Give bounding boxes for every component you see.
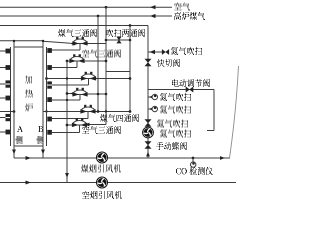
CO detector branch <box>192 157 195 162</box>
label 氮气吹扫 3 <box>160 106 191 113</box>
right burners B side <box>47 48 52 135</box>
air riser corner to valve5 with arrow <box>84 123 106 127</box>
N2 purge instrument 3 <box>148 106 158 111</box>
flow arrow into furnace B side <box>70 42 75 46</box>
manual butterfly valve 手动蝶阀 <box>145 141 152 145</box>
air three-way valve 空气三通阀 V5 <box>73 121 87 126</box>
left burners A side <box>6 49 11 135</box>
jumper air riser to purge drop <box>106 71 130 73</box>
label 煤烟引风机 <box>81 165 121 172</box>
stem valve3 to burner row3 <box>88 79 90 86</box>
label 手动蝶阀 <box>156 143 187 150</box>
label 氮气吹扫 2 <box>160 94 191 101</box>
furnace box 加热炉 <box>14 47 43 146</box>
label 高炉煤气 <box>174 13 205 20</box>
label 吹扫两通阀 <box>106 30 145 37</box>
three-way valve V3 <box>82 74 96 79</box>
junction node header3 / purge drop pipe <box>129 24 132 27</box>
gas three-way valve 煤气三通阀 V1 <box>73 39 87 44</box>
label 电动调节阀 <box>172 80 210 87</box>
left line to A side (y=111.5) <box>0 111 14 113</box>
purge valve bowtie <box>162 49 166 55</box>
junction node air header / air riser <box>105 6 108 9</box>
label A侧 <box>17 127 23 132</box>
wire valve3 left port to B pipe <box>47 78 82 80</box>
air-smoke flue line 空烟 <box>0 181 236 185</box>
three-way valve V6 (A-side gas) <box>73 90 87 95</box>
label 氮气吹扫 5 <box>160 130 191 137</box>
air three-way valve 空气三通阀 V2 <box>70 57 84 62</box>
wire valve2 right port to air riser <box>84 60 106 62</box>
up arrow on gas pipe bottom <box>146 152 150 157</box>
label 氮气吹扫 4 <box>157 120 188 127</box>
CO detector instrument <box>191 162 196 167</box>
air supply header line 空气 <box>0 5 172 9</box>
exhaust duct down arrow <box>65 173 69 178</box>
gas branch pipe (quick-cut line) <box>147 26 149 159</box>
blower on gas pipe <box>143 127 154 138</box>
gas four-way valve line <box>43 110 131 113</box>
stem valve5 to burner row6 <box>79 125 81 133</box>
label 煤气四通阀 <box>100 115 139 122</box>
purge drop pipe <box>129 26 131 112</box>
purge line <box>106 39 130 41</box>
wire valve6 left port to exhaust duct with arrow <box>66 92 75 96</box>
coal smoke fan 煤烟引风机 <box>97 152 108 163</box>
left burner stubs <box>0 51 6 132</box>
quick cut valve 快切阀 <box>145 59 152 63</box>
stem valve2 to burner row2 <box>76 61 78 68</box>
wire valve3 right port to purge drop <box>96 78 130 80</box>
exhaust duct vertical <box>66 61 68 183</box>
BF gas supply header line 高炉煤气 <box>0 14 172 18</box>
B-side flue downcomer with arrow <box>41 40 45 158</box>
stem valve4 to burner row5 <box>87 112 89 119</box>
label 快切阀 <box>157 60 180 67</box>
purge two-way valve 吹扫两通阀 <box>116 37 121 41</box>
label CO 检测仪 <box>176 168 213 175</box>
label B侧 <box>38 127 43 132</box>
label 空气三通阀 (lower) <box>82 127 121 134</box>
pipe from B-side wall to gas three-way valve <box>0 41 71 43</box>
B-side manifold pipe <box>46 47 48 146</box>
wire valve6 right port to risers <box>87 93 108 96</box>
air smoke fan 空烟引风机 <box>97 177 108 188</box>
N2 purge branch on gas pipe (top) <box>148 50 163 54</box>
label 空气三通阀 (upper) <box>82 50 121 57</box>
air riser pipe <box>105 7 107 124</box>
junction node gas header / gas riser <box>97 15 100 18</box>
stem valve6 to burner row4 <box>79 95 81 101</box>
wire valve1 to air riser <box>88 43 107 45</box>
label 空烟引风机 <box>82 192 122 199</box>
label 空气 <box>174 3 190 10</box>
label 加热炉 (vertical) <box>25 76 32 83</box>
label 氮气吹扫 1 <box>171 48 202 55</box>
third supply header line <box>0 25 148 27</box>
A-side manifold pipe <box>10 47 12 146</box>
N2 purge valve on pipe 4 <box>145 119 152 123</box>
A-side flue downcomer with arrow <box>12 40 16 158</box>
electric control valve line 电动调节阀 <box>148 90 214 131</box>
faint curved line right edge <box>230 66 239 158</box>
N2 purge instrument 2 <box>148 94 158 99</box>
wire valve2 left port to exhaust duct <box>67 60 70 62</box>
label 煤气三通阀 <box>58 30 97 37</box>
gas four-way valve 煤气四通阀 V4 <box>81 107 95 112</box>
gas riser pipe <box>97 16 99 112</box>
stem of valve1 down to burner row1 <box>79 44 81 51</box>
wire valve5 left port to exhaust duct <box>67 124 73 126</box>
coal-smoke flue line 煤烟 <box>14 156 230 160</box>
electric control valve bowtie <box>186 87 190 93</box>
